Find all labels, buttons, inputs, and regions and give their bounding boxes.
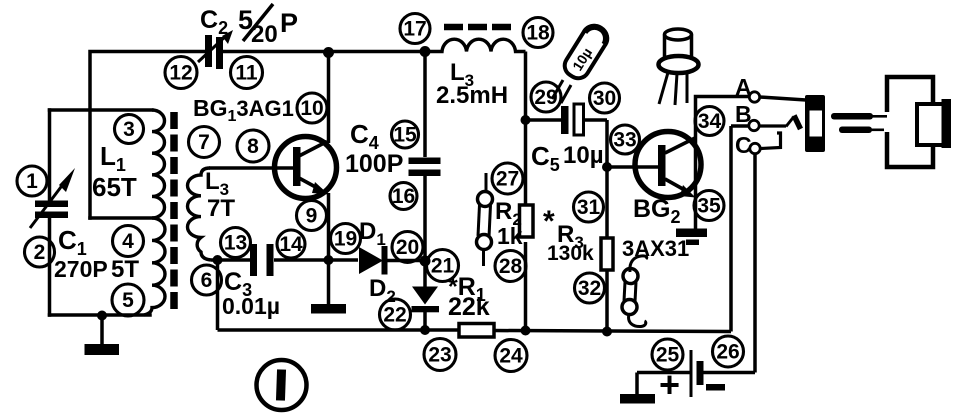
wire choke drop [524,52,528,121]
svg-text:130k: 130k [547,242,594,265]
terminal C [750,143,760,153]
inductor L2 winding [188,168,212,260]
svg-text:17: 17 [403,18,426,41]
wire C4 branch lower [423,176,427,287]
svg-text:14: 14 [279,233,303,256]
svg-text:26: 26 [716,341,739,364]
svg-text:1k: 1k [497,223,523,249]
wire tuned-loop top [50,108,153,112]
earphone cord leads [831,113,887,133]
figure number badge [257,360,307,410]
terminal A [749,92,759,102]
svg-text:P: P [280,8,298,38]
resistor R2 [520,205,534,237]
svg-text:A: A [735,74,752,100]
junction at C1 ground [97,311,107,321]
svg-text:6: 6 [201,269,213,292]
earphone shell [887,77,933,167]
node 17 [400,14,430,44]
junction D2 at rail [420,325,430,335]
battery short plate [697,361,704,385]
resistor R1 [459,324,494,338]
svg-text:270P: 270P [54,256,108,282]
node 8 [237,130,269,162]
wire L1 box bottom (tap) [90,216,153,220]
node 34 [695,107,724,136]
svg-text:23: 23 [428,344,451,367]
wire bottom left [50,313,151,317]
wire A to plug [760,97,806,100]
node 20 [392,232,423,263]
L1/L2 ferrite core [170,112,178,309]
svg-text:100P: 100P [345,150,403,178]
pictorial resistor annotation near R2 [477,173,493,266]
svg-text:18: 18 [526,22,550,45]
svg-text:16: 16 [392,185,415,208]
node 12 [165,57,197,89]
capacitor C1 (variable) plates [35,201,68,219]
wire R2 branch upper [524,120,528,204]
battery long plate [690,350,693,397]
pictorial electrolytic capacitor annotation [552,22,611,103]
svg-text:19: 19 [334,228,357,251]
junction node 6 [213,255,223,265]
phone plug [805,95,825,152]
svg-text:C: C [735,132,752,158]
node 2 [25,237,55,267]
transistor BG1 [275,137,337,199]
svg-text:31: 31 [577,196,601,219]
svg-text:2: 2 [34,241,46,264]
inductor L3 choke [425,39,526,51]
wire BG1 base [209,166,294,170]
node circles [17,14,744,372]
node 21 [427,250,459,282]
battery wire plus side [637,371,690,375]
svg-text:24: 24 [499,345,523,368]
svg-text:34: 34 [698,110,722,133]
junction BG1 collector on rail [323,47,334,58]
svg-text:33: 33 [613,129,636,152]
ground at battery plus [620,373,655,404]
node 32 [575,273,605,303]
node 10 [297,93,327,123]
svg-text:22: 22 [383,304,406,327]
node 27 [492,163,523,194]
node 23 [424,339,456,371]
node 25 [652,339,683,370]
svg-text:0.01µ: 0.01µ [222,293,280,319]
svg-text:29: 29 [534,86,557,109]
capacitor C2 trimmer arrow [198,30,233,62]
svg-text:5: 5 [122,289,134,312]
svg-text:B: B [735,101,752,127]
node 7 [189,127,220,158]
label R3 [543,205,584,252]
node 1 [17,166,47,196]
svg-text:11: 11 [235,62,258,85]
svg-text:65T: 65T [92,172,137,202]
terminal B [749,120,759,130]
svg-text:+: + [659,364,680,405]
node 28 [495,251,526,282]
node 6 [192,265,222,295]
earphone driver [917,104,947,145]
svg-text:27: 27 [496,168,519,191]
node 30 [590,83,620,113]
wire D1 to node 21 [388,259,426,263]
wire detector node segment 2 [274,258,358,262]
svg-text:10µ: 10µ [563,142,604,169]
junction node 21 [420,256,431,267]
junction node 29 [521,115,531,125]
wire left loop lower [48,217,52,315]
svg-text:2.5mH: 2.5mH [436,82,508,109]
svg-text:4: 4 [122,230,134,253]
node 3 [115,115,144,144]
jack switch hook at B [760,116,801,130]
diode D2 [412,287,440,313]
svg-text:30: 30 [593,87,616,110]
junction BG1 emitter node [324,255,334,265]
label battery minus [706,384,725,391]
wire R2 branch lower [524,242,528,331]
node 9 [297,201,327,231]
svg-text:5T: 5T [111,256,139,283]
svg-text:28: 28 [499,255,523,278]
ground below BG1 emitter [311,260,346,314]
node 11 [231,57,263,89]
node 33 [611,125,640,154]
svg-text:20: 20 [396,236,419,259]
wire C riser to battery minus [753,154,757,373]
wire to C5 [526,118,562,122]
node 14 [277,230,305,258]
svg-text:8: 8 [247,135,259,158]
pictorial resistor annotation near BG2 [622,256,647,327]
node 18 [523,18,553,48]
wire C5 to corner [584,118,607,122]
svg-text:35: 35 [697,195,721,218]
junction R3 at rail [602,327,612,337]
wire C3 box left drop [216,260,220,330]
svg-text:3: 3 [123,118,135,141]
ground below BG2 emitter [676,229,707,246]
wire left loop upper [48,110,52,201]
transistor BG2 [635,132,701,198]
resistor R3 [601,238,613,270]
wire BG1 collector riser [327,52,331,144]
wire R3 branch lower [605,270,609,332]
svg-text:1: 1 [26,170,38,193]
ground below C1 [85,315,120,355]
svg-text:3AX31: 3AX31 [622,236,689,261]
node 24 [495,340,527,372]
wire C4 branch upper [423,52,427,158]
wire top rail right segment [222,50,425,54]
capacitor C5 plates [561,104,584,135]
pictorial transistor can annotation [659,29,699,105]
capacitor C4 plates [409,158,441,177]
bottom rail left segment [218,328,460,332]
node 16 [390,183,417,210]
node 31 [574,192,604,222]
wire BG2 base [607,165,659,169]
svg-text:9: 9 [306,205,318,228]
svg-text:*: * [543,205,555,238]
wire BG1 emitter drop [327,193,331,260]
node 13 [221,228,251,258]
svg-text:15: 15 [393,124,417,147]
diode D1 [359,246,388,275]
wire detector node segment 1 [211,258,251,262]
L3 core dashes [444,24,512,31]
wire BG2 collector riser [696,97,750,230]
capacitor C2 plates [205,35,223,69]
wire B riser to rail [729,126,733,332]
wire B left [731,124,749,128]
node 29 [531,82,561,112]
node 4 [113,226,144,257]
jack break contact at C [761,133,781,149]
label C2 value 5/20P [238,4,298,48]
junction R2 at rail [521,326,531,336]
earphone magnet bar [942,99,952,148]
battery wire minus side [704,371,756,375]
svg-text:7: 7 [198,131,210,154]
wire top rail left segment [90,52,205,219]
svg-text:32: 32 [578,277,601,300]
svg-text:13: 13 [224,232,247,255]
wire R3 branch upper [605,167,609,238]
wire D2 to rail [423,312,427,330]
svg-text:22k: 22k [448,293,490,321]
junction node 33 [602,162,612,172]
svg-text:BG13AG1: BG13AG1 [193,95,294,125]
svg-text:12: 12 [169,62,192,85]
node 5 [112,284,144,316]
capacitor C3 plates [250,244,274,276]
svg-text:7T: 7T [207,195,235,222]
node 35 [694,191,724,221]
wire C5 corner drop [605,120,609,167]
inductor L1 winding [144,110,165,315]
svg-text:10: 10 [300,97,323,120]
node 26 [713,336,744,367]
bottom rail right segment [494,331,731,332]
node 22 [380,299,411,330]
capacitor C1 arrow [30,168,75,228]
node 19 [331,224,361,254]
node 15 [392,121,419,148]
junction node 17 [420,46,431,57]
